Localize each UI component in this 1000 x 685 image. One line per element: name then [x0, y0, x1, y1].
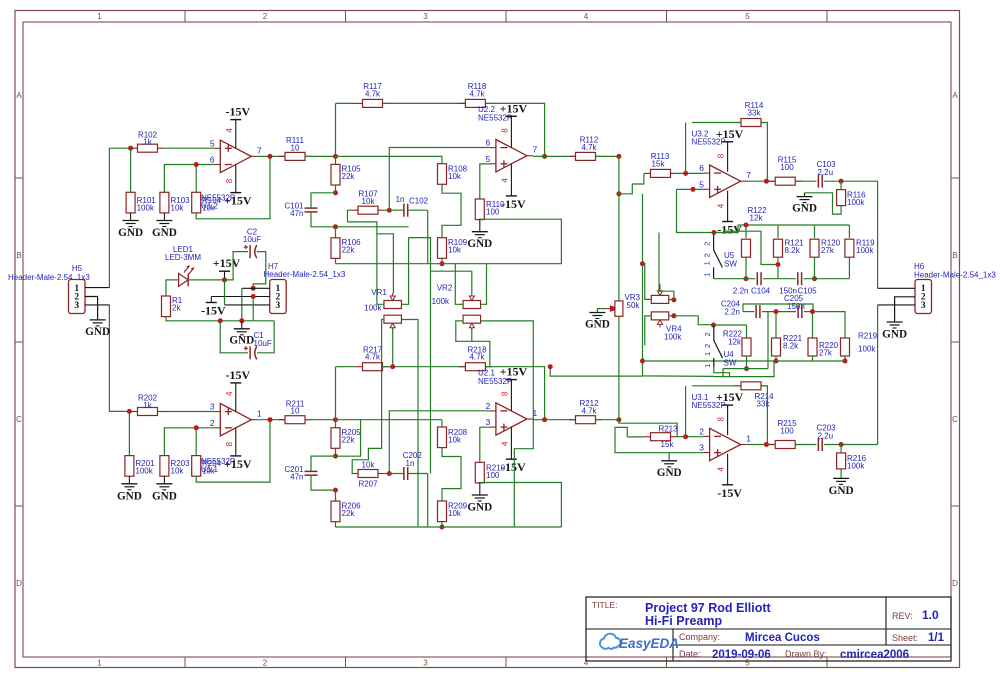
potentiometer VR2 lower gang: [463, 315, 481, 323]
switch U4 SW: [713, 325, 715, 340]
svg-text:+15V: +15V: [716, 390, 744, 404]
svg-text:4: 4: [501, 441, 510, 446]
resistor R109 10k: [438, 238, 447, 259]
svg-text:R219: R219: [858, 332, 878, 341]
wire op-amp output: [257, 155, 285, 157]
svg-text:3: 3: [423, 659, 428, 668]
svg-text:100k: 100k: [847, 461, 865, 470]
ground under H6: [887, 321, 903, 323]
resistor R209 10k: [438, 501, 447, 522]
svg-text:10k: 10k: [202, 203, 216, 212]
wire R113 to -in: [677, 172, 704, 174]
svg-text:15k: 15k: [652, 159, 666, 168]
svg-text:2.2n: 2.2n: [733, 287, 749, 296]
wire R1 to gnd rail: [166, 317, 220, 321]
svg-text:3: 3: [486, 417, 491, 427]
svg-text:Mircea Cucos: Mircea Cucos: [745, 632, 820, 644]
resistor R103 10k: [160, 192, 169, 213]
svg-text:REV:: REV:: [892, 611, 913, 621]
capacitor C203 2.2u: [795, 444, 816, 446]
svg-text:3: 3: [276, 301, 281, 311]
svg-text:10: 10: [291, 143, 300, 152]
wire lower rail A: [774, 360, 845, 362]
svg-text:4.7k: 4.7k: [365, 89, 381, 98]
svg-text:2: 2: [703, 242, 712, 246]
resistor R118 4.7k: [459, 102, 466, 104]
resistor R215 100: [769, 444, 776, 446]
svg-text:+15V: +15V: [500, 101, 528, 115]
resistor R201 100k: [128, 412, 130, 456]
ground under R110: [479, 219, 481, 232]
svg-text:2: 2: [703, 332, 712, 336]
svg-text:2: 2: [699, 426, 704, 436]
svg-text:Hi-Fi Preamp: Hi-Fi Preamp: [645, 614, 722, 628]
resistor R218 4.7k: [459, 366, 466, 368]
wire VR2 lower wiper: [471, 329, 473, 341]
svg-text:10uF: 10uF: [243, 235, 261, 244]
svg-text:GND: GND: [882, 329, 907, 341]
svg-text:cmircea2006: cmircea2006: [840, 649, 909, 661]
svg-text:8: 8: [717, 417, 726, 422]
svg-text:5: 5: [210, 138, 215, 148]
svg-text:1: 1: [746, 434, 751, 444]
svg-text:33k: 33k: [757, 399, 771, 408]
capacitor C105 150n: [763, 278, 796, 280]
wire feedback to output node: [485, 103, 544, 156]
resistor R108 10k: [336, 155, 443, 157]
resistor R205 22k: [335, 420, 337, 428]
svg-text:+15V: +15V: [213, 256, 241, 270]
svg-text:Drawn By:: Drawn By:: [785, 649, 827, 659]
wire VR4 lower right: [669, 315, 674, 317]
svg-text:SW: SW: [724, 359, 737, 368]
svg-text:C: C: [952, 415, 958, 424]
power flag +15V for U2.1: [510, 380, 512, 411]
svg-text:EasyEDA: EasyEDA: [619, 636, 679, 651]
svg-text:150n: 150n: [787, 302, 805, 311]
wire to op-amp +in: [164, 411, 214, 413]
svg-text:GND: GND: [792, 203, 817, 215]
svg-text:+15V: +15V: [716, 127, 744, 141]
svg-text:3: 3: [699, 443, 704, 453]
svg-text:1: 1: [97, 659, 102, 668]
potentiometer VR1 lower gang: [384, 315, 402, 323]
svg-text:B: B: [952, 251, 957, 260]
svg-text:1: 1: [703, 363, 712, 367]
svg-text:4: 4: [225, 391, 234, 396]
wire -input riser: [389, 411, 490, 474]
rail horizontal: [336, 526, 562, 528]
wire output: [747, 180, 776, 182]
svg-text:5: 5: [486, 154, 491, 164]
svg-text:-15V: -15V: [201, 304, 226, 318]
svg-text:15k: 15k: [661, 440, 675, 449]
wire runner x659 lower: [658, 232, 660, 234]
svg-text:10k: 10k: [448, 435, 462, 444]
potentiometer VR4 100k upper gang: [651, 295, 669, 303]
svg-text:22k: 22k: [342, 172, 356, 181]
wire VR1 upper right riser: [401, 238, 408, 305]
resistor R101 100k: [130, 148, 132, 192]
svg-text:GND: GND: [118, 227, 143, 239]
op-amp U3.1 NE5532P: [710, 428, 741, 460]
svg-text:12k: 12k: [750, 214, 764, 223]
wire op-amp output: [257, 419, 285, 421]
resistor R120 27k: [814, 225, 816, 238]
wire line B switch loop: [723, 231, 778, 264]
svg-text:100k: 100k: [432, 297, 450, 306]
wire R109 to rail: [441, 522, 443, 527]
svg-text:D: D: [16, 579, 22, 588]
power flag +15V for U3.1: [727, 405, 729, 435]
wire R216 bottom to ground: [840, 469, 842, 479]
power flag -15V for U2.1: [510, 427, 512, 459]
op-amp U3.2 NE5532P: [710, 165, 741, 197]
resistor R113 15k: [644, 172, 651, 174]
resistor R117 4.7k: [356, 102, 363, 104]
svg-text:Company:: Company:: [679, 632, 720, 642]
svg-text:GND: GND: [467, 501, 492, 513]
svg-text:2.2u: 2.2u: [818, 168, 834, 177]
resistor R105 22k: [335, 156, 337, 164]
svg-text:2k: 2k: [172, 304, 181, 313]
resistor R1 2k: [162, 296, 171, 317]
wire to H6: [841, 444, 878, 446]
resistor R202 1k: [131, 411, 138, 413]
svg-text:8.2k: 8.2k: [785, 246, 801, 255]
resistor R213 15k: [644, 436, 651, 438]
resistor R119 100k: [848, 225, 850, 238]
svg-text:3: 3: [921, 301, 926, 311]
resistor R207 10k: [352, 473, 359, 475]
wire C102 right down: [427, 210, 429, 264]
resistor R116 100k: [840, 181, 842, 190]
svg-text:Date:: Date:: [679, 649, 701, 659]
svg-text:10k: 10k: [202, 467, 216, 476]
svg-text:Header-Male-2.54_1x3: Header-Male-2.54_1x3: [914, 271, 996, 280]
svg-text:8: 8: [717, 153, 726, 158]
svg-text:6: 6: [486, 138, 491, 148]
wire U4 bottom stub jog: [714, 367, 730, 376]
wire VR4 upper right: [669, 298, 674, 300]
wire H5 pin1: [85, 287, 109, 289]
svg-text:100k: 100k: [847, 198, 865, 207]
wire R116 bottom to ground: [805, 193, 842, 214]
resistor R115 100: [769, 180, 776, 182]
svg-text:100k: 100k: [137, 203, 155, 212]
wire U3.2 +in dogleg to switch: [677, 188, 704, 190]
resistor R211 10: [279, 419, 286, 421]
wire R112 to VR3 node: [596, 155, 619, 157]
capacitor C104 2.2n: [714, 278, 755, 280]
resistor R208 10k: [336, 419, 443, 421]
wire -input riser: [389, 148, 490, 211]
svg-text:8: 8: [501, 391, 510, 396]
wire switch U5 to rail jog: [714, 225, 738, 233]
resistor R112 4.7k: [569, 155, 576, 157]
svg-text:GND: GND: [585, 319, 610, 331]
svg-text:10k: 10k: [171, 467, 185, 476]
wire lower row B: [723, 368, 768, 370]
svg-text:GND: GND: [657, 467, 682, 479]
wire R107 left staircase to VR1 upper left: [348, 210, 384, 304]
svg-text:GND: GND: [467, 238, 492, 250]
svg-text:R207: R207: [358, 480, 378, 489]
svg-text:5: 5: [745, 12, 750, 21]
svg-text:VR1: VR1: [371, 288, 387, 297]
svg-text:22k: 22k: [342, 435, 356, 444]
wire feedback line up: [335, 367, 337, 420]
feedback wire R204 to output: [196, 420, 270, 482]
svg-text:3: 3: [74, 301, 79, 311]
ground at VR3: [589, 312, 605, 314]
svg-text:GND: GND: [85, 326, 110, 338]
wire VR1 lower right runner: [401, 320, 418, 528]
tone rail top: [738, 224, 849, 226]
svg-text:C102: C102: [409, 197, 429, 206]
wire VR2 lower right to ch2 rail: [481, 321, 534, 527]
wire R222 row: [714, 324, 747, 326]
svg-text:100k: 100k: [664, 333, 682, 342]
svg-text:100: 100: [486, 208, 500, 217]
svg-text:12k: 12k: [728, 338, 742, 347]
wire VR2 upper right: [481, 264, 487, 305]
wire C101 net to VR2 top: [336, 226, 409, 228]
resistor R203 10k: [160, 456, 169, 477]
rail horizontal: [336, 263, 562, 265]
wire C201 node riser: [336, 420, 361, 457]
svg-text:1n: 1n: [406, 459, 415, 468]
svg-text:-15V: -15V: [501, 197, 526, 211]
svg-text:10k: 10k: [448, 509, 462, 518]
op-amp U2.2 NE5532P: [496, 140, 527, 172]
svg-text:8: 8: [501, 128, 510, 133]
EasyEDA logo: [600, 634, 679, 651]
wire ch2 feedback branch to tone network: [550, 367, 642, 376]
wire VR2 upper left: [455, 264, 463, 305]
resistor R204 10k: [192, 456, 201, 477]
wire VR4 to switch U4: [674, 316, 714, 325]
svg-text:3: 3: [423, 12, 428, 21]
svg-text:4: 4: [225, 128, 234, 133]
svg-text:GND: GND: [152, 227, 177, 239]
wire VR4 upper wiper riser: [659, 284, 661, 288]
svg-text:10k: 10k: [362, 197, 376, 206]
wire R112 to VR3 node: [596, 419, 619, 421]
resistor R210 100: [475, 462, 484, 483]
wire output: [747, 444, 776, 446]
svg-text:GND: GND: [152, 490, 177, 502]
svg-text:100: 100: [780, 163, 794, 172]
svg-text:GND: GND: [117, 490, 142, 502]
svg-text:A: A: [16, 91, 22, 100]
wire H6 pin2 to ground: [895, 297, 915, 322]
svg-text:2: 2: [486, 401, 491, 411]
svg-text:10k: 10k: [448, 246, 462, 255]
ground under R201: [128, 476, 130, 484]
svg-text:4.7k: 4.7k: [581, 406, 597, 415]
ground under R216: [833, 477, 849, 479]
wire to node after R111: [305, 155, 336, 157]
svg-text:22k: 22k: [342, 246, 356, 255]
capacitor C202 1n: [389, 473, 404, 475]
resistor R217 4.7k: [356, 366, 363, 368]
resistor R216 100k: [840, 445, 842, 454]
power flag -15V for U3.1: [727, 454, 729, 485]
svg-text:+15V: +15V: [224, 194, 252, 208]
svg-text:2019-09-06: 2019-09-06: [712, 649, 771, 661]
wire R207 climb to VR1 lower left: [352, 320, 384, 474]
resistor R212 4.7k: [569, 419, 576, 421]
wire VR3 column bottom: [618, 316, 620, 419]
wire R114 to output: [762, 123, 767, 182]
svg-text:27k: 27k: [821, 246, 835, 255]
svg-text:A: A: [952, 91, 958, 100]
wire U3.1 +in to ground: [669, 453, 703, 461]
wire H7 pin2 to -15V: [211, 296, 269, 298]
wire VR2 runner to C202 node: [430, 271, 432, 473]
ground under R210: [479, 482, 481, 495]
svg-text:Sheet:: Sheet:: [892, 633, 918, 643]
resistor R106 22k: [335, 227, 337, 238]
wire to node after R211: [305, 419, 336, 421]
svg-text:1: 1: [703, 352, 712, 356]
ground under R103: [163, 213, 165, 221]
svg-text:+15V: +15V: [500, 365, 528, 379]
power flag +15V for U1.1: [235, 428, 237, 456]
svg-text:100: 100: [486, 471, 500, 480]
svg-text:22k: 22k: [342, 509, 356, 518]
wire R110 gnd rail link: [480, 219, 562, 264]
wire feedback line up: [335, 103, 337, 156]
svg-text:1: 1: [257, 409, 262, 419]
wire input to R202: [109, 305, 129, 412]
svg-text:GND: GND: [229, 335, 254, 347]
svg-text:100k: 100k: [135, 467, 153, 476]
wire output to R112: [533, 419, 576, 421]
power flag +15V for U2.2: [510, 116, 512, 147]
svg-text:3: 3: [210, 402, 215, 412]
svg-text:Project 97 Rod Elliott: Project 97 Rod Elliott: [645, 601, 772, 615]
svg-text:1k: 1k: [143, 138, 152, 147]
resistor R104 10k: [192, 192, 201, 213]
wire VR2 lower left loop to R218: [456, 321, 490, 367]
wire long runner left: [643, 194, 715, 377]
resistor R107 10k: [352, 209, 359, 211]
wire -input net: [164, 165, 214, 193]
svg-text:10k: 10k: [362, 460, 376, 469]
power flag +15V for U3.2: [727, 142, 729, 172]
wire H6 pin1 from C103 node: [878, 287, 915, 289]
power flag -15V for U1.2: [235, 120, 237, 149]
svg-text:VR2: VR2: [437, 284, 453, 293]
svg-text:+15V: +15V: [224, 457, 252, 471]
svg-text:Header-Male-2.54_1x3: Header-Male-2.54_1x3: [264, 270, 346, 279]
svg-text:6: 6: [699, 163, 704, 173]
wire switch U5 bottom stub: [713, 277, 715, 279]
svg-text:-15V: -15V: [225, 368, 250, 382]
resistor R214 33k: [685, 386, 687, 437]
resistor R206 22k: [335, 490, 337, 501]
svg-text:GND: GND: [829, 485, 854, 497]
switch U5 SW: [713, 235, 715, 250]
svg-text:2.2n: 2.2n: [724, 308, 740, 317]
svg-text:1: 1: [97, 12, 102, 21]
wire feedback middle: [383, 102, 466, 104]
op-amp U2.1 NE5532P: [496, 403, 527, 435]
wire input to R213: [619, 420, 677, 437]
svg-text:2: 2: [210, 418, 215, 428]
ground symbol on rail: [241, 321, 243, 329]
wire R108 to R109 zigzag: [442, 448, 461, 502]
svg-text:27k: 27k: [819, 349, 833, 358]
wire LED cathode to +15V rail: [188, 279, 224, 281]
svg-text:2: 2: [263, 12, 268, 21]
svg-text:1n: 1n: [396, 195, 405, 204]
wire pin2 riser to rail: [252, 297, 254, 321]
svg-text:100: 100: [780, 426, 794, 435]
potentiometer VR4 lower gang: [651, 312, 669, 320]
svg-text:10k: 10k: [448, 172, 462, 181]
power flag -15V for U2.2: [510, 164, 512, 196]
svg-text:7: 7: [533, 145, 538, 155]
svg-text:47n: 47n: [290, 209, 303, 218]
wire R110 gnd rail link: [480, 483, 562, 528]
wire H7 pin1 to gnd rail: [242, 287, 270, 289]
ground near C103: [804, 193, 806, 197]
wire R107 right to node: [385, 209, 390, 211]
svg-text:LED-3MM: LED-3MM: [165, 253, 201, 262]
wire feedback middle: [383, 366, 466, 368]
wire C102 right down: [427, 474, 429, 528]
wire cap mid riser: [767, 312, 769, 369]
svg-text:7: 7: [257, 145, 262, 155]
power flag -15V for U1.1: [235, 383, 237, 412]
svg-text:4: 4: [501, 178, 510, 183]
wire VR1 lower wiper to feedback: [392, 328, 394, 367]
gnd rail under power block: [220, 320, 274, 322]
wire H5 pin2 to gnd: [85, 297, 98, 320]
svg-text:4: 4: [584, 12, 589, 21]
resistor R102 1k: [131, 147, 138, 149]
ground under H5: [90, 319, 106, 321]
wire feedback to output node: [485, 367, 544, 420]
capacitor C101 47n: [311, 193, 336, 208]
power flag -15V (rail): [210, 297, 212, 303]
svg-text:1k: 1k: [143, 401, 152, 410]
svg-text:6: 6: [210, 155, 215, 165]
op-amp U1.2 NE5532P: [220, 140, 251, 172]
wire output to R112: [533, 155, 576, 157]
svg-text:47n: 47n: [290, 472, 303, 481]
svg-text:2: 2: [263, 659, 268, 668]
svg-text:50k: 50k: [627, 301, 641, 310]
svg-text:33k: 33k: [748, 108, 762, 117]
svg-text:8: 8: [225, 178, 234, 183]
svg-text:4: 4: [717, 467, 726, 472]
capacitor C103 2.2u: [795, 180, 816, 182]
resistor R110 100: [475, 199, 484, 220]
wire -input net: [164, 428, 214, 456]
svg-text:7: 7: [746, 170, 751, 180]
svg-text:B: B: [16, 251, 21, 260]
wire bypass line over caps: [743, 304, 813, 312]
wire +input to R110: [480, 427, 490, 463]
ground under R203: [163, 476, 165, 484]
svg-text:4.7k: 4.7k: [469, 89, 485, 98]
svg-text:4.7k: 4.7k: [581, 143, 597, 152]
wire to op-amp +in: [164, 147, 214, 149]
